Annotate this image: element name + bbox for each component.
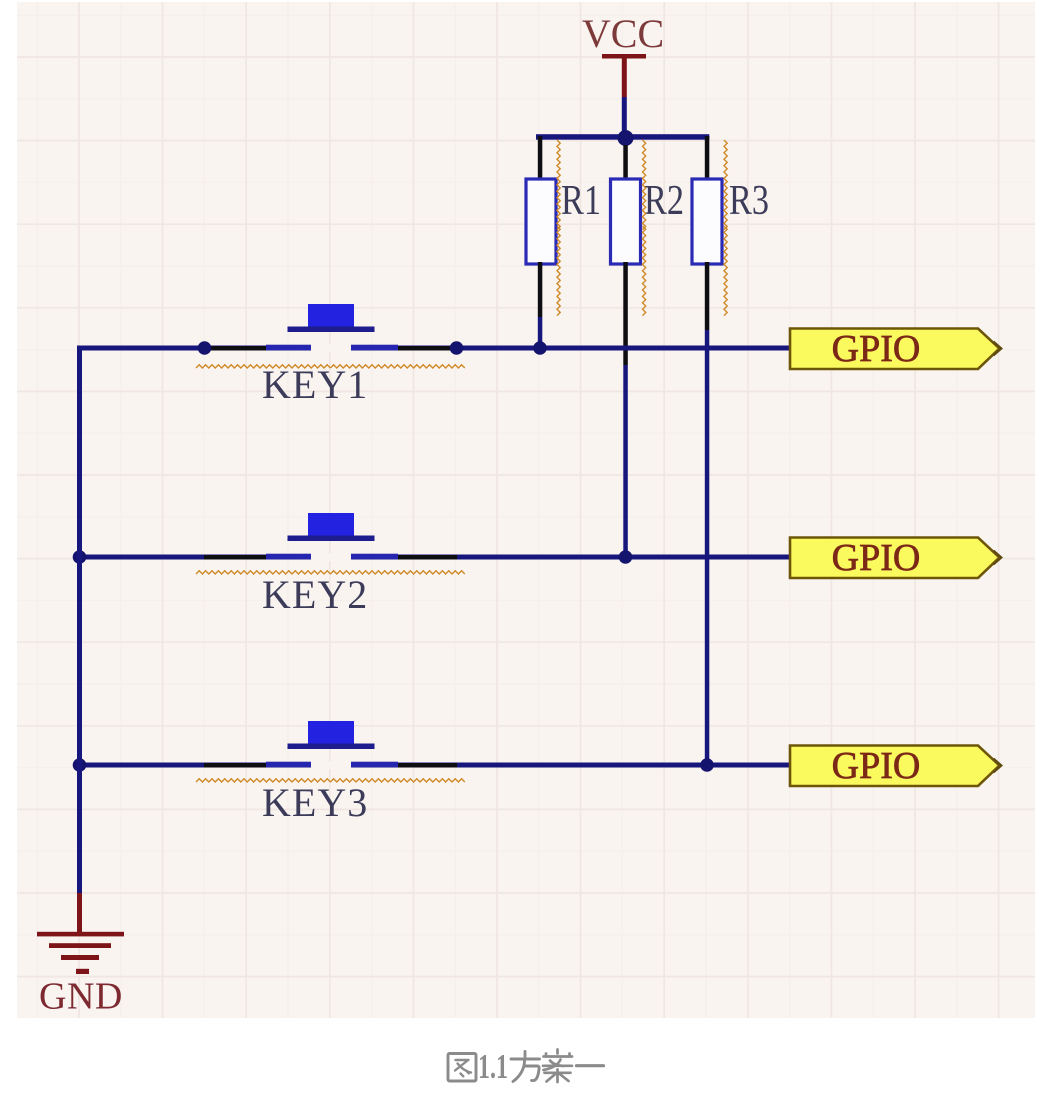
wire KEY1 row left (navy): [77, 346, 311, 351]
svg-text:GND: GND: [39, 976, 123, 1018]
node KEY2 left junction: [73, 550, 87, 564]
wire R2 bottom stub (black): [623, 262, 628, 365]
resistor R3: [692, 179, 722, 264]
svg-text:KEY2: KEY2: [262, 572, 368, 617]
switch KEY2 button: [288, 513, 375, 541]
switch KEY1 right lead: [351, 345, 398, 351]
node KEY2 / R2 junction: [619, 550, 633, 564]
power VCC stem (red): [622, 56, 627, 97]
resistor R2 error zigzag: [643, 140, 646, 230]
wire R3 bottom stub (black): [705, 262, 710, 330]
wire left bus vertical to GND (red): [77, 893, 82, 934]
wire KEY1 black segment right: [398, 346, 457, 351]
port GPIO 2: [790, 537, 1002, 579]
switch KEY2 right lead: [351, 554, 398, 560]
error zigzag KEY2: [196, 571, 330, 574]
wire R1 bottom stub (black): [538, 262, 543, 317]
svg-text:VCC: VCC: [582, 11, 664, 56]
resistor R1 error zigzag: [557, 140, 560, 230]
switch KEY2 gap: [311, 553, 351, 561]
port GPIO 1: [790, 328, 1002, 370]
error zigzag KEY3: [196, 779, 330, 782]
node KEY1 pin2: [450, 341, 464, 355]
wire R3 bottom stub (navy): [705, 330, 710, 765]
node KEY1 / R1 junction: [533, 341, 547, 355]
svg-text:1.1: 1.1: [478, 1048, 508, 1086]
wire KEY1 black segment left: [204, 346, 266, 351]
switch KEY1 left lead: [266, 345, 311, 351]
wire top rail: [536, 134, 709, 140]
svg-text:R1: R1: [561, 178, 601, 224]
switch KEY3 button: [288, 721, 375, 749]
switch KEY1 gap: [311, 344, 351, 352]
wire KEY2 black segment right: [398, 555, 457, 560]
node junction VCC rail: [618, 130, 634, 146]
svg-text:R3: R3: [729, 178, 769, 224]
node KEY1 pin1: [198, 341, 212, 355]
node KEY3 left junction: [73, 758, 87, 772]
switch KEY3 left lead: [266, 762, 311, 768]
wire R2 bottom stub (navy): [623, 365, 628, 557]
ground symbol: [37, 932, 124, 974]
caption 案: [543, 1050, 572, 1083]
port GPIO 3: [790, 745, 1002, 787]
resistor R1: [526, 179, 556, 264]
wire stub rail to R1 (black): [538, 136, 543, 179]
wire R1 bottom stub (navy): [538, 317, 543, 348]
wire KEY3 row left (navy): [77, 763, 311, 768]
wire KEY3 black segment left: [204, 763, 266, 768]
svg-text:R2: R2: [644, 178, 684, 224]
resistor R2: [611, 179, 641, 264]
caption 图: [448, 1054, 476, 1082]
switch KEY3 right lead: [351, 762, 398, 768]
resistor R3 error zigzag: [724, 140, 727, 230]
wire left bus vertical (navy): [77, 346, 82, 894]
switch KEY3 gap: [311, 761, 351, 769]
wire KEY3 black segment right: [398, 763, 457, 768]
caption 一: [577, 1064, 604, 1067]
node KEY3 / R3 junction: [700, 758, 714, 772]
svg-text:KEY1: KEY1: [262, 362, 368, 407]
switch KEY2 left lead: [266, 554, 311, 560]
wire stub rail to R2 (black): [623, 145, 628, 179]
wire KEY2 black segment left: [204, 555, 266, 560]
svg-text:KEY3: KEY3: [262, 780, 368, 825]
wire KEY2 row right (navy): [351, 555, 790, 560]
wire KEY2 row left (navy): [77, 555, 311, 560]
power VCC bar symbol: [602, 54, 646, 59]
caption 图1.1方案一: [448, 1048, 604, 1086]
switch KEY1 button: [288, 304, 375, 332]
error zigzag KEY1: [196, 365, 330, 368]
wire KEY3 row right (navy): [351, 763, 790, 768]
wire VCC stem (navy): [622, 97, 627, 137]
caption 方: [511, 1052, 540, 1082]
wire KEY1 row right (navy): [351, 346, 790, 351]
wire stub rail to R3 (black): [705, 136, 710, 179]
